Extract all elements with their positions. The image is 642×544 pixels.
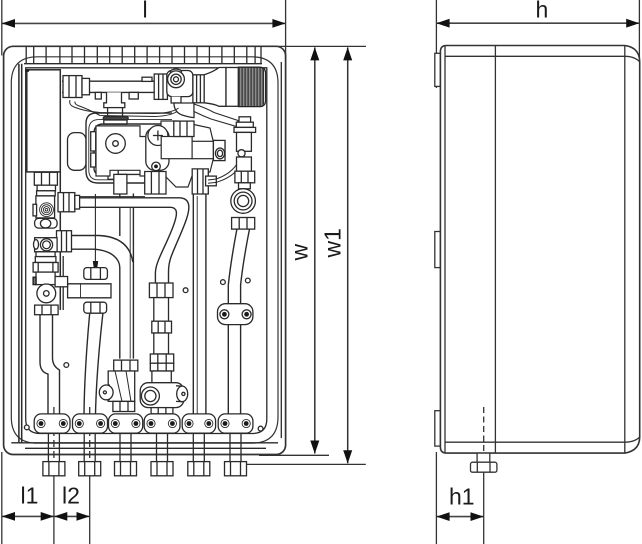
left dark tab — [33, 277, 36, 284]
dimension l arrow right — [272, 19, 285, 28]
dimension h1 extension line right — [483, 473, 485, 544]
heat exchanger block — [27, 70, 61, 172]
valve C body — [35, 238, 58, 252]
gauge rings — [231, 189, 256, 214]
top rail ticks — [26, 46, 261, 63]
top rail bottom line — [24, 63, 262, 65]
tail 4 — [151, 434, 173, 476]
dimension w line — [314, 47, 316, 453]
pipe segment — [36, 252, 55, 257]
front inner frame face — [11, 57, 278, 443]
dimension w bottom extension line — [259, 454, 329, 456]
node pipe1 centerline dashed — [53, 407, 55, 477]
right spigot — [176, 386, 182, 402]
plate screws — [24, 278, 263, 431]
dimension l2 line — [54, 515, 89, 517]
handle circle — [168, 71, 185, 88]
valve body — [140, 383, 184, 408]
lower hex — [84, 302, 107, 313]
motor bell — [204, 68, 226, 107]
hex coupling — [33, 263, 58, 273]
S-bend down to connection 4 valve — [169, 198, 189, 283]
tail 3 — [115, 434, 137, 476]
slant pipe down to connection 6 — [228, 229, 237, 305]
pump flange bolts — [91, 132, 96, 151]
back plate — [26, 68, 267, 434]
bracket 5 — [182, 414, 215, 433]
small tab on pipe — [142, 77, 152, 81]
dimension h line — [437, 22, 640, 24]
right passage — [192, 141, 213, 158]
side bottom valve centerline — [483, 407, 485, 462]
union nut right — [154, 74, 167, 99]
svg-text:h1: h1 — [449, 484, 475, 510]
side bottom valve nut — [471, 462, 497, 472]
dimension l2 arrow left — [54, 512, 67, 521]
valve B body — [35, 218, 58, 228]
dimension h extension line right — [638, 0, 640, 59]
dimension w top extension line — [266, 45, 366, 47]
hex up to drain elbow — [174, 121, 194, 136]
screw boss circle with cross — [148, 126, 168, 146]
side left inner line — [444, 46, 446, 454]
svg-text:w: w — [287, 244, 313, 262]
frame bottom band line1 — [11, 442, 278, 444]
svg-text:l: l — [143, 0, 148, 23]
pump circle — [106, 134, 126, 154]
svg-text:l2: l2 — [62, 483, 80, 509]
handle top bump — [171, 69, 182, 75]
body segment — [237, 157, 252, 171]
dimension h arrow right — [626, 19, 639, 28]
bracket screws — [39, 421, 249, 426]
dimension l extension line left — [1, 0, 3, 55]
tee neck — [104, 92, 125, 107]
dimension l1 line — [2, 515, 54, 517]
side hinge tab bottom — [435, 411, 441, 446]
dimension l line — [2, 22, 285, 24]
knurl hatching — [240, 67, 264, 106]
dimension h1 arrow right — [471, 512, 484, 521]
elbow tube to safety column — [194, 104, 238, 127]
dimension h extension line left — [435, 0, 437, 88]
tail 5 — [188, 434, 210, 476]
top cap — [239, 117, 251, 122]
dimension h1 line — [437, 516, 484, 518]
side inner right vertical — [624, 46, 626, 454]
left wall strip lines — [18, 64, 20, 443]
bracket 1 — [34, 414, 70, 433]
bottom hex — [151, 408, 173, 414]
loop bottom fittings — [108, 168, 118, 179]
frame bottom band line2 — [25, 447, 266, 449]
dimension w1 line — [347, 47, 349, 463]
front frame inner return edge right — [280, 62, 282, 438]
block bottom-left hex union — [145, 172, 166, 195]
big front ring — [141, 387, 159, 405]
svg-text:w1: w1 — [320, 228, 346, 258]
dimension w1 arrow bottom — [343, 450, 352, 463]
connection tails: pipe stubs below brackets with hex nuts — [43, 434, 247, 476]
front outer frame — [4, 46, 286, 454]
side hinge tab middle — [435, 232, 441, 268]
bracket screw rings — [37, 419, 250, 427]
side circle connection — [238, 150, 245, 157]
side bottom valve stub — [477, 453, 490, 462]
side bottom fold line — [445, 438, 639, 443]
hex nut — [235, 171, 255, 183]
dimension l1 arrow left — [2, 512, 15, 521]
bracket 6 — [218, 414, 253, 433]
right branch hex — [55, 277, 68, 287]
assembly baseline — [80, 196, 145, 198]
valve body center — [161, 137, 192, 159]
dark clip at HX top-left — [25, 69, 29, 72]
motor body band — [226, 68, 238, 107]
block outline — [96, 121, 225, 187]
loop bottom — [86, 171, 145, 183]
bracket 3 — [109, 414, 143, 433]
bottom flange — [35, 305, 59, 315]
dimension l2 extension line right — [89, 477, 91, 544]
right port hex with ring — [213, 140, 225, 160]
dimension h1 arrow left — [436, 512, 449, 521]
mounting rail behind left column — [59, 172, 61, 310]
side cabinet body — [440, 46, 639, 454]
union hex at left column — [57, 231, 72, 252]
dimension w1 arrow top — [343, 47, 352, 60]
clips under pipe — [95, 92, 101, 99]
union hex at left column — [58, 193, 75, 212]
dimension l1 arrow right — [41, 512, 54, 521]
top hex — [84, 268, 108, 280]
small black dot — [152, 162, 161, 171]
ball circle — [37, 284, 56, 303]
union nut left — [63, 76, 82, 98]
dimension w arrow top — [310, 47, 319, 60]
dimension w1 bottom extension line — [241, 463, 366, 465]
valve body — [167, 71, 193, 97]
dimension l extension line right — [285, 0, 287, 58]
dimension h1 extension line left — [435, 452, 437, 544]
tail 6 — [225, 434, 247, 476]
ringed circle A — [40, 203, 54, 217]
side hinge tab top — [435, 53, 441, 86]
node pipe2 centerline dashed — [89, 407, 91, 477]
tail 2 — [79, 434, 101, 476]
block bottom-right hex union — [192, 169, 208, 194]
pipe run — [62, 80, 205, 82]
dimension l2 arrow right — [77, 512, 90, 521]
horizontal tee pipe from left column — [68, 284, 111, 298]
bracket 4 — [144, 414, 180, 433]
svg-text:l1: l1 — [21, 483, 39, 509]
lower hex — [232, 218, 255, 230]
side seam line — [494, 46, 496, 454]
screw boss plate — [146, 128, 169, 171]
upper body — [237, 132, 252, 151]
knurled cap — [238, 67, 265, 106]
dimension l arrow left — [2, 19, 15, 28]
gasket — [103, 117, 128, 120]
svg-text:h: h — [536, 0, 549, 23]
dimension l1/l2 shared extension line — [53, 477, 55, 544]
bracket 2 — [73, 414, 108, 433]
drain elbow below valve — [171, 97, 181, 103]
dimension l1 extension line left — [1, 452, 3, 544]
right side small fitting — [206, 176, 217, 186]
pipe down to bracket 2 — [84, 313, 90, 414]
left tab A — [33, 204, 37, 216]
left spigot — [106, 385, 110, 399]
pipe from HX — [34, 172, 57, 185]
dimension h arrow left — [436, 19, 449, 28]
neck — [239, 183, 251, 189]
side top fold line — [445, 56, 640, 61]
tail 1 — [43, 434, 65, 476]
ball valve body — [36, 272, 55, 285]
clamp bracket — [218, 304, 253, 325]
valve A body — [36, 196, 55, 218]
dimension w arrow bottom — [310, 441, 319, 454]
hex between valve and motor — [193, 75, 204, 103]
flange — [37, 191, 56, 196]
